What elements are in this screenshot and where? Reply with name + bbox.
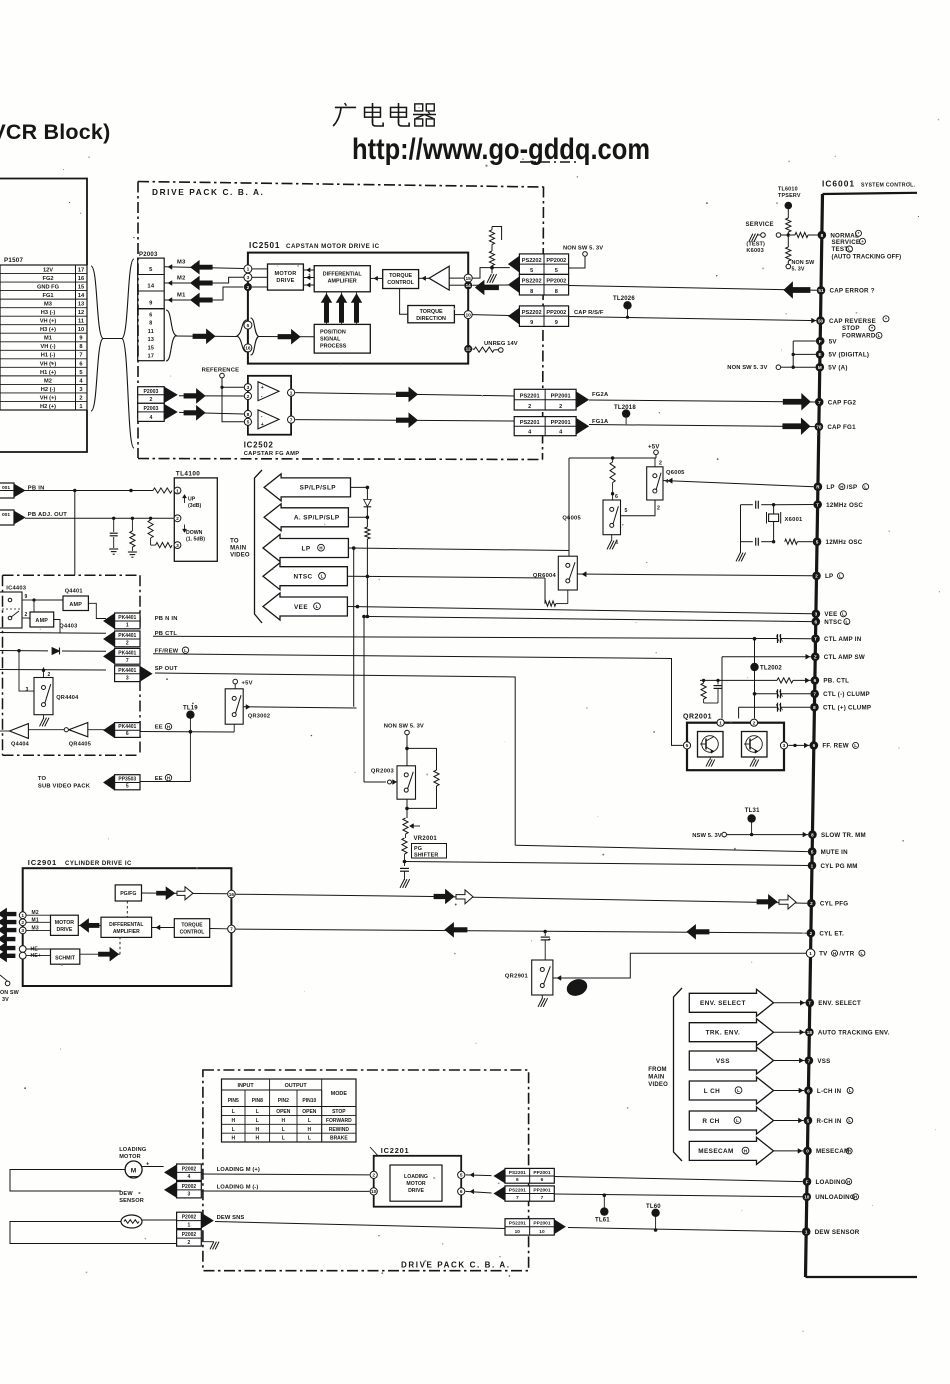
svg-text:(AUTO TRACKING OFF): (AUTO TRACKING OFF): [832, 255, 902, 261]
level block TL4100 box: [174, 478, 217, 561]
svg-text:MOTOR: MOTOR: [275, 271, 297, 277]
IC6001 pin at y=486: [814, 482, 823, 491]
video pack block (dash-dot box): [3, 575, 141, 755]
svg-text:DRIVE: DRIVE: [276, 278, 294, 284]
svg-text:F: F: [806, 1179, 809, 1184]
test point TL2018: [614, 405, 636, 424]
svg-text:2: 2: [659, 461, 662, 467]
svg-text:PROCESS: PROCESS: [320, 344, 347, 350]
svg-text:AUTO TRACKING ENV.: AUTO TRACKING ENV.: [818, 1030, 890, 1037]
svg-text:FG1: FG1: [42, 293, 53, 299]
svg-text:MODE: MODE: [331, 1091, 348, 1097]
connector PS2201/PP2001 pins 4 (FG1A): [514, 417, 609, 436]
svg-text:ON SW: ON SW: [0, 990, 20, 996]
svg-text:E: E: [818, 352, 821, 357]
label FROM MAIN VIDEO: [648, 1067, 668, 1088]
wire torque control to differential amplifier: [370, 276, 382, 280]
TL4100 pin 2: [174, 515, 181, 522]
IC6001 pin at y=402 (CAP FG2): [815, 398, 857, 407]
svg-text:H: H: [319, 545, 322, 550]
svg-text:M1: M1: [44, 336, 52, 342]
svg-text:L: L: [308, 1118, 311, 1124]
svg-text:SENSOR: SENSOR: [119, 1198, 144, 1204]
wire TRK. ENV. arrow to pin: [774, 1030, 806, 1035]
svg-text:6: 6: [79, 361, 82, 367]
svg-text:PG/FG: PG/FG: [120, 891, 136, 897]
switch Q6005 (lower): [562, 494, 627, 546]
position signal process block in IC2501: [314, 324, 370, 353]
svg-text:ENV. SELECT: ENV. SELECT: [700, 1000, 746, 1007]
wires loading motor loop: [10, 1167, 164, 1192]
ic IC4403 label: [6, 586, 26, 592]
svg-text:QR2001: QR2001: [683, 714, 712, 721]
svg-text:2: 2: [528, 404, 531, 410]
connector PK4401 pin 2 (PB CTL): [104, 631, 178, 647]
connector P2002 pin 3: [165, 1182, 202, 1198]
signal arrow MESECAM (from main video): [689, 1137, 773, 1164]
svg-text:CAP ERROR ?: CAP ERROR ?: [829, 288, 874, 295]
svg-text:PP2002: PP2002: [546, 310, 566, 316]
wire M1 with signal arrow: [164, 287, 243, 307]
label LP/SP pin: [826, 484, 868, 491]
svg-text:L: L: [232, 1109, 235, 1115]
resistor below service node: [786, 235, 791, 264]
op-amp ic IC2501 label: [249, 241, 380, 250]
svg-text:12MHz OSC: 12MHz OSC: [826, 502, 863, 509]
svg-text:6: 6: [126, 731, 129, 737]
svg-text:ENV. SELECT: ENV. SELECT: [818, 1000, 861, 1007]
wire PG shifter to CYL PG MM pin: [405, 862, 808, 866]
svg-text:LP: LP: [302, 545, 311, 552]
svg-text:L: L: [256, 1118, 259, 1124]
label L-CH IN pin: [817, 1088, 853, 1095]
connector P2003 pin 2 (to IC2502): [138, 387, 178, 404]
wire differential amp to motor drive with fat arrow: [78, 919, 101, 932]
svg-text:4: 4: [79, 378, 83, 384]
svg-text:SP OUT: SP OUT: [155, 666, 178, 672]
torque direction block in IC2501: [408, 306, 455, 323]
svg-text:17: 17: [78, 267, 84, 273]
svg-text:AMP: AMP: [35, 618, 48, 624]
capacitor on CTL AMP IN line: [765, 634, 811, 643]
svg-text:(VCR Block): (VCR Block): [0, 120, 110, 144]
svg-text:H: H: [231, 1136, 235, 1142]
svg-text:SERVICE: SERVICE: [832, 239, 861, 246]
amplifier triangle Q4404: [0, 724, 30, 748]
IC2901 left pins M2/M1/M3: [19, 910, 50, 934]
svg-text:Q6005: Q6005: [562, 516, 581, 522]
svg-text:Z: Z: [814, 655, 817, 660]
IC2502 op-amp B triangle: [258, 410, 279, 429]
svg-text:OPEN: OPEN: [276, 1109, 291, 1115]
wires IC2501 pins to motor drive: [252, 269, 268, 287]
svg-text:CYL ET.: CYL ET.: [819, 930, 844, 937]
svg-text:P1507: P1507: [4, 257, 23, 264]
svg-text:10: 10: [78, 327, 84, 333]
IC6001 pin at y=575: [812, 572, 821, 581]
svg-text:1: 1: [21, 913, 24, 919]
svg-text:PP2001: PP2001: [551, 394, 571, 400]
IC6001 pin at y=541 (12MHz OSC): [813, 537, 863, 546]
connector PK4401 pin 1 (PB N IN): [104, 613, 178, 629]
svg-text:7: 7: [230, 927, 233, 933]
svg-text:QR2901: QR2901: [505, 974, 529, 980]
wire VSS arrow to pin: [774, 1058, 805, 1063]
svg-text:1: 1: [811, 863, 814, 868]
wire QR2001 pin 3 to FF.REW pin: [788, 743, 809, 748]
svg-text:NON SW 5. 3V: NON SW 5. 3V: [563, 246, 603, 252]
wire NTSC arrow to QR6004: [347, 575, 545, 604]
labels CAP REVERSE/STOP/FORWARD modes: [842, 316, 889, 340]
svg-text:2: 2: [559, 404, 562, 410]
svg-text:PB. CTL: PB. CTL: [823, 678, 849, 685]
svg-text:PS2202: PS2202: [522, 310, 542, 316]
svg-text:5: 5: [686, 743, 689, 749]
wire Q6005 pin4 to LP/SP pin: [663, 478, 814, 487]
svg-text:M1: M1: [177, 293, 186, 299]
svg-text:BRAKE: BRAKE: [330, 1136, 348, 1142]
svg-text:7: 7: [808, 1058, 811, 1063]
svg-text:CTL AMP SW: CTL AMP SW: [824, 654, 865, 661]
wire LOADING M(+): [201, 1167, 369, 1175]
svg-text:L CH: L CH: [704, 1088, 720, 1095]
wire PS2201-6 to LOADING pin: [554, 1177, 802, 1182]
svg-text:14: 14: [147, 283, 154, 289]
IC6001 pin at y=745: [810, 741, 819, 750]
signal arrow ENV. SELECT (from main video): [689, 989, 773, 1016]
svg-text:CAPSTAN MOTOR DRIVE IC: CAPSTAN MOTOR DRIVE IC: [286, 243, 380, 250]
svg-text:5: 5: [79, 370, 82, 376]
svg-text:http://www.go-gddq.com: http://www.go-gddq.com: [352, 133, 650, 166]
svg-text:PIN8: PIN8: [252, 1098, 263, 1104]
svg-text:PB N IN: PB N IN: [155, 616, 178, 622]
svg-text:*: *: [885, 317, 887, 322]
svg-text:3: 3: [783, 743, 786, 749]
IC6001 system control bus line: [806, 193, 918, 1277]
power NSW 5.3V node to SLOW TR pin: [692, 832, 808, 839]
svg-text:PP2001: PP2001: [533, 1170, 550, 1176]
svg-text:EE: EE: [155, 725, 163, 731]
wire FG1A to CAP FG1 pin with arrow: [589, 418, 815, 434]
wire FF/REW long line: [0, 649, 683, 745]
resistor from +5V rail: [610, 458, 615, 500]
wire LP arrow branch down to QR3002: [353, 548, 355, 707]
svg-text:TORQUE: TORQUE: [181, 923, 203, 929]
svg-text:UNREG 14V: UNREG 14V: [484, 341, 518, 347]
svg-text:5: 5: [816, 540, 819, 545]
svg-text:+5V: +5V: [648, 445, 660, 451]
svg-text:TO: TO: [38, 776, 47, 782]
svg-text:6: 6: [149, 313, 152, 319]
svg-text:9: 9: [149, 301, 153, 307]
svg-text:PIN5: PIN5: [228, 1098, 239, 1104]
svg-text:PP2002: PP2002: [546, 258, 566, 264]
connector P2003 pin 4 (to IC2502): [138, 403, 178, 421]
svg-text:DIFFERENTAL: DIFFERENTAL: [109, 922, 143, 928]
TL4100 pin 1: [174, 487, 181, 494]
resistor on selector vertical: [365, 517, 370, 616]
5V pins interconnect wires: [792, 341, 816, 369]
svg-text:PIN10: PIN10: [302, 1098, 316, 1104]
svg-text:NON SW 5. 3V: NON SW 5. 3V: [384, 724, 424, 730]
svg-text:LOADING: LOADING: [815, 1179, 845, 1186]
svg-text:1: 1: [805, 1230, 808, 1235]
label TO SUB VIDEO PACK: [38, 776, 91, 790]
svg-text:16: 16: [245, 346, 251, 352]
svg-text:MOTOR: MOTOR: [55, 920, 74, 926]
QR2001 pin 5: [683, 742, 690, 749]
svg-text:L: L: [848, 1118, 851, 1123]
svg-text:H: H: [308, 1127, 312, 1133]
svg-text:GND FG: GND FG: [37, 284, 60, 290]
svg-text:TPSERV: TPSERV: [778, 193, 801, 199]
signal arrow R CH (from main video): [689, 1107, 773, 1134]
IC6001 pin at y=851 (MUTE IN): [808, 847, 848, 856]
svg-text:8: 8: [530, 289, 533, 295]
svg-text:9: 9: [555, 320, 558, 326]
svg-text:STOP: STOP: [842, 325, 860, 332]
switch QR2901: [505, 960, 553, 995]
svg-text:X6001: X6001: [785, 517, 804, 523]
svg-text:2: 2: [372, 1173, 375, 1179]
svg-text:8: 8: [555, 289, 558, 295]
svg-text:OPEN: OPEN: [302, 1109, 317, 1115]
svg-text:DRIVE PACK C. B. A.: DRIVE PACK C. B. A.: [152, 187, 264, 197]
svg-text:8: 8: [821, 233, 824, 238]
capacitor on CTL(+) CLUMP line: [739, 703, 811, 719]
wire DEW SNS to PS2201-10: [215, 1215, 505, 1229]
svg-text:3: 3: [176, 543, 179, 549]
svg-text:L: L: [308, 1136, 311, 1142]
svg-text:2: 2: [48, 672, 51, 678]
svg-text:H: H: [847, 1179, 850, 1184]
svg-text:CTL (+) CLUMP: CTL (+) CLUMP: [823, 705, 871, 712]
switch QR4404: [25, 667, 79, 714]
test point TL2026: [613, 296, 635, 319]
wire CTL AMP SW to QR2001 pin 1: [722, 654, 811, 718]
svg-text:2: 2: [25, 612, 28, 618]
svg-text:70: 70: [816, 424, 822, 429]
label VEE pin: [824, 611, 846, 618]
wire QR6004 to LP pin: [577, 572, 812, 577]
svg-text:001: 001: [2, 512, 10, 518]
svg-text:H2 (-): H2 (-): [41, 387, 56, 393]
svg-text:VH (-): VH (-): [40, 344, 55, 350]
svg-text:8: 8: [813, 705, 816, 710]
cylinder drive ic IC2901 label: [28, 858, 132, 867]
svg-text:VEE: VEE: [824, 611, 837, 618]
svg-text:2: 2: [815, 574, 818, 579]
wire A.SP/LP/SLP junction: [348, 516, 369, 520]
wire VEE arrow to VEE pin: [347, 605, 811, 614]
svg-text:P2002: P2002: [182, 1166, 197, 1172]
svg-text:3: 3: [25, 687, 28, 693]
svg-text:PP3503: PP3503: [118, 777, 136, 783]
svg-text:9: 9: [25, 594, 28, 600]
svg-text:LOADING: LOADING: [404, 1174, 428, 1180]
IC2501 pin 2 (filled): [244, 283, 252, 291]
svg-text:5: 5: [126, 784, 129, 790]
test point TL31: [745, 808, 760, 836]
transistor pack QR2001 box: [687, 723, 784, 771]
fat arrows into IC2901 head pins: [0, 933, 15, 961]
svg-text:M: M: [131, 1167, 137, 1174]
svg-text:12: 12: [78, 310, 84, 316]
wire IC2502 out 1 to connector PS2201-2 (FG2A): [295, 387, 514, 401]
svg-text:17: 17: [148, 354, 155, 360]
svg-text:IC2901: IC2901: [28, 858, 57, 867]
cable bundle braces between P1507 and P2003: [91, 259, 134, 448]
svg-text:FG2: FG2: [42, 276, 53, 282]
svg-text:5V (DIGITAL): 5V (DIGITAL): [828, 352, 869, 359]
svg-text:STOP: STOP: [332, 1109, 346, 1115]
IC6001 pin at y=367 (5V (A)): [815, 363, 847, 372]
svg-text:0: 0: [806, 1149, 809, 1154]
signal arrow LP-H: [263, 535, 348, 562]
svg-text:2: 2: [810, 901, 813, 906]
svg-text:LOADING M (-): LOADING M (-): [217, 1185, 259, 1191]
svg-text:CAP REVERSE: CAP REVERSE: [829, 318, 876, 325]
svg-text:QR4405: QR4405: [69, 742, 91, 748]
connector PS2202/PP2002 pins 5: [508, 254, 568, 275]
connector P2003 label: [139, 252, 158, 258]
switch Q6005 (upper): [647, 458, 685, 512]
svg-text:TL19: TL19: [183, 706, 198, 712]
svg-text:LP: LP: [825, 573, 833, 580]
svg-text:H: H: [744, 1148, 747, 1153]
motor drive block in IC2901: [51, 915, 79, 935]
svg-text:6: 6: [807, 1088, 810, 1093]
wire Q6005 lower to upper: [621, 500, 656, 516]
resistor below VR2001: [402, 834, 407, 866]
svg-text:8: 8: [79, 344, 82, 350]
svg-text:T: T: [814, 637, 817, 642]
svg-text:MUTE IN: MUTE IN: [821, 849, 848, 856]
svg-text:H1 (+): H1 (+): [40, 370, 56, 376]
wire IC2501 pin 10 to connector PS2202 9: [473, 314, 510, 317]
wire QR3002 output to LP branch: [243, 705, 356, 710]
IC6001 pin at y=933 (CYL ET.): [807, 929, 845, 938]
drive pack c.b.a. bottom label: [401, 1261, 511, 1270]
ground below Q6005 lower: [607, 535, 617, 550]
differential amplifier block in IC2901: [101, 917, 152, 937]
svg-text:(TEST): (TEST): [746, 241, 765, 247]
svg-text:L: L: [316, 604, 319, 609]
IC6001 pin at y=865 (CYL PG MM): [808, 861, 858, 870]
svg-text:L: L: [839, 574, 842, 579]
svg-text:L: L: [864, 484, 867, 489]
IC6001 pin at y=320 (CAP REVERSE): [816, 316, 876, 325]
svg-text:3: 3: [247, 275, 250, 281]
fat arrows position signal process to differential amplifier: [321, 292, 361, 324]
wire CYL PFG line with arrows: [236, 890, 807, 910]
svg-text:6: 6: [541, 1177, 544, 1183]
resistor stack right of IC2501: [489, 227, 501, 274]
IC4403 pin 9: [22, 594, 36, 602]
ground below QR4404: [40, 715, 50, 727]
connector P1507 label: [4, 257, 23, 264]
resistor and capacitor to ground on PB.CTL: [701, 679, 723, 703]
svg-text:NON SW: NON SW: [792, 260, 816, 266]
svg-text:MOTOR: MOTOR: [119, 1154, 141, 1160]
svg-text:PS2201: PS2201: [509, 1188, 526, 1194]
wire K6003 to NORMAL pin with resistor: [781, 232, 818, 237]
svg-text:10: 10: [466, 312, 472, 318]
svg-text:MAIN: MAIN: [648, 1074, 664, 1080]
connector PS2201/PP2001 pins 10: [505, 1219, 565, 1235]
svg-text:T: T: [808, 1001, 811, 1006]
IC2201 pin 10: [370, 1188, 377, 1195]
connector P2002 pin 2: [177, 1230, 202, 1246]
svg-text:6: 6: [516, 1177, 519, 1183]
svg-text:NON SW 5. 3V: NON SW 5. 3V: [727, 365, 767, 371]
brace on P2003 group pins: [166, 310, 176, 361]
svg-text:6: 6: [813, 743, 816, 748]
op-amp ic IC2502 labels: [244, 441, 300, 457]
svg-text:M2: M2: [44, 378, 52, 384]
svg-text:MAIN: MAIN: [230, 546, 246, 552]
IC2201 pin 2: [370, 1171, 377, 1178]
wires PG/FG to pin 16 with arrows: [142, 887, 228, 900]
svg-text:A. SP/LP/SLP: A. SP/LP/SLP: [294, 515, 340, 522]
svg-text:TRK. ENV.: TRK. ENV.: [706, 1030, 741, 1037]
service label: [746, 222, 774, 228]
svg-text:REWIND: REWIND: [329, 1127, 350, 1133]
svg-text:TL61: TL61: [595, 1218, 610, 1224]
svg-text:6: 6: [814, 678, 817, 683]
IC6001 pin at y=235 (NORMAL): [818, 231, 859, 240]
IC6001 pin at y=953: [806, 949, 815, 958]
bracket for FROM MAIN VIDEO group: [674, 988, 683, 1161]
svg-text:OUTPUT: OUTPUT: [285, 1083, 308, 1089]
IC2201 pin 6: [458, 1188, 465, 1195]
svg-text:F: F: [819, 339, 822, 344]
svg-text:FF. REW: FF. REW: [822, 743, 849, 750]
svg-text:PK4401: PK4401: [118, 668, 136, 674]
connector NON SW 5.3V node at PS2202: [563, 246, 603, 269]
svg-text:11: 11: [78, 319, 84, 325]
svg-text:1: 1: [176, 488, 179, 494]
stray dash segment near header: [520, 161, 578, 163]
svg-text:6: 6: [615, 494, 618, 500]
svg-text:TL2002: TL2002: [760, 666, 782, 672]
svg-text:DIFFERENTIAL: DIFFERENTIAL: [323, 271, 363, 277]
svg-text:5V: 5V: [829, 338, 838, 345]
svg-text:H3 (-): H3 (-): [41, 310, 56, 316]
svg-text:NTSC: NTSC: [824, 619, 842, 626]
signal arrow SP/LP/SLP: [264, 474, 350, 501]
svg-text:L: L: [184, 648, 187, 653]
svg-text:PS2201: PS2201: [520, 394, 540, 400]
wire PB IN to TL4100 pin 1 with resistor: [25, 488, 172, 493]
IC6001 pin at y=1120: [804, 1116, 813, 1125]
svg-text:TORQUE: TORQUE: [420, 309, 443, 315]
connector PS2202/PP2002 pins 8: [508, 274, 568, 295]
test point TL6010 TPSERV: [778, 187, 801, 219]
level block TL4100 label: [176, 471, 200, 478]
svg-text:7: 7: [126, 658, 129, 664]
svg-text:+: +: [861, 239, 864, 244]
svg-text:3: 3: [247, 385, 250, 391]
svg-text:7: 7: [79, 353, 82, 359]
svg-text:P2002: P2002: [182, 1184, 197, 1190]
svg-text:2: 2: [753, 721, 756, 727]
IC2502 pin 3: [244, 384, 251, 391]
connector PS2201/PP2001 pins 2 (FG2A): [514, 389, 609, 410]
svg-text:H: H: [840, 484, 843, 489]
svg-text:12: 12: [466, 347, 472, 352]
svg-text:CAP R/S/F: CAP R/S/F: [574, 310, 604, 316]
